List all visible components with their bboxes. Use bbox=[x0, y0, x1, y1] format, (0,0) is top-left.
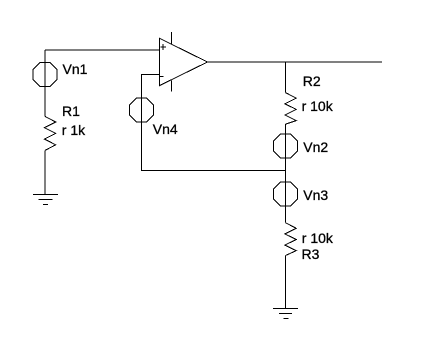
wire bbox=[45, 49, 160, 51]
label Vn4 bbox=[153, 122, 178, 136]
label R3 bbox=[302, 247, 320, 261]
resistor R1 bbox=[44, 116, 55, 150]
wire bbox=[142, 122, 286, 170]
wire bbox=[44, 50, 46, 116]
label Vn1 bbox=[63, 62, 88, 76]
wire bbox=[285, 158, 287, 182]
wire bbox=[44, 150, 46, 194]
wire bbox=[208, 61, 383, 63]
wire bbox=[285, 206, 287, 223]
label R2 bbox=[303, 74, 321, 88]
wire bbox=[285, 62, 287, 93]
voltage source Vn2 bbox=[274, 134, 298, 158]
voltage source Vn3 bbox=[274, 182, 298, 206]
op-amp U1 bbox=[160, 32, 208, 92]
ground bbox=[273, 309, 298, 319]
wire bbox=[142, 74, 160, 98]
wire bbox=[285, 256, 287, 309]
resistor R3 bbox=[285, 223, 296, 256]
voltage source Vn1 bbox=[33, 63, 57, 87]
label r 10k bbox=[302, 99, 333, 113]
label R1 bbox=[62, 104, 80, 118]
ground bbox=[33, 195, 58, 205]
label r 1k bbox=[62, 123, 85, 137]
label Vn3 bbox=[303, 188, 328, 202]
label r 10k bbox=[302, 231, 333, 245]
label Vn2 bbox=[303, 140, 328, 154]
resistor R2 bbox=[285, 93, 296, 125]
wire bbox=[285, 124, 287, 134]
voltage source Vn4 bbox=[130, 98, 154, 122]
